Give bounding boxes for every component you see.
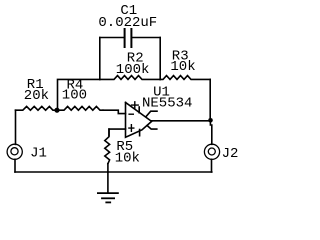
svg-text:20k: 20k xyxy=(24,88,49,104)
svg-text:0.022uF: 0.022uF xyxy=(98,15,157,31)
wire: left rail (C1/R2 parallel) xyxy=(99,38,101,80)
wire: node A up to feedback net xyxy=(58,79,100,110)
non-inverting input plus glyph xyxy=(129,125,134,132)
svg-text:J2: J2 xyxy=(222,146,239,162)
svg-text:10k: 10k xyxy=(115,150,140,166)
label U1 xyxy=(142,85,192,112)
junction node B (output/R3/J2) xyxy=(208,118,213,123)
pin: balance lower stub xyxy=(147,126,157,130)
capacitor C1 xyxy=(100,29,160,47)
label R1 xyxy=(24,77,49,104)
wire: J2 to ground bus xyxy=(211,159,213,172)
svg-text:10k: 10k xyxy=(170,59,195,75)
resistor R3 xyxy=(160,76,210,80)
resistor R2 xyxy=(100,76,160,80)
svg-text:100k: 100k xyxy=(116,62,150,78)
wire: U1 output to node B xyxy=(152,120,211,122)
svg-text:J1: J1 xyxy=(30,146,47,162)
V+ plus glyph xyxy=(132,102,139,109)
label C1 xyxy=(98,3,157,31)
inverting input minus glyph xyxy=(129,113,133,115)
ground xyxy=(98,172,118,202)
wire: right rail (C1/R2 parallel) xyxy=(159,38,161,80)
wire: J1 to ground bus xyxy=(14,159,16,172)
label R3 xyxy=(170,49,195,75)
op-amp U1 xyxy=(126,102,158,138)
wire: R4 to U1 inverting input xyxy=(103,110,126,113)
connector J2 xyxy=(204,144,219,159)
resistor R5 xyxy=(105,129,110,164)
pin: balance upper stub xyxy=(146,111,157,116)
wire: R5 to ground bus xyxy=(107,164,109,172)
wire: R3 to output node (right rail down) xyxy=(209,79,211,120)
svg-text:100: 100 xyxy=(62,87,87,103)
label J1 xyxy=(30,146,47,162)
resistor R4 xyxy=(58,106,104,110)
wire: ground bus xyxy=(15,171,212,173)
wire: R1 left to J1 xyxy=(15,110,17,144)
resistor R1 xyxy=(16,106,57,110)
pin: V- stub xyxy=(139,130,141,136)
pin: V+ stub xyxy=(138,107,140,113)
junction node A (R1/R4/feedback) xyxy=(54,108,59,113)
label R5 xyxy=(115,139,140,166)
wire: R5 to U1 non-inverting input xyxy=(109,129,126,135)
svg-text:NE5534: NE5534 xyxy=(142,96,192,112)
label R4 xyxy=(62,78,87,104)
wire: node B down to J2 xyxy=(210,120,211,144)
connector J1 xyxy=(7,144,22,159)
label R2 xyxy=(116,51,150,78)
label J2 xyxy=(222,146,239,162)
